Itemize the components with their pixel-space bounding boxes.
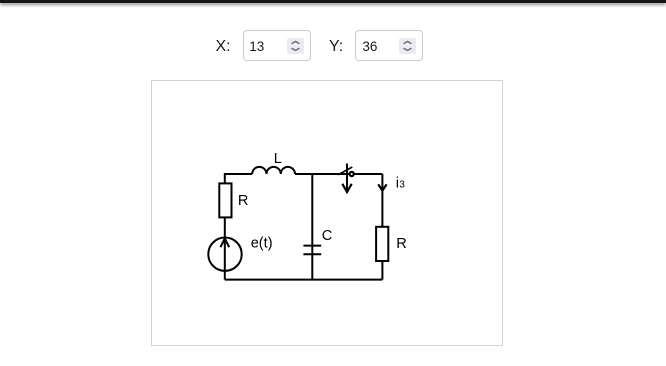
label X: [216, 38, 231, 56]
switch S1 [338, 164, 354, 193]
middle branch wire (through capacitor) [311, 174, 313, 280]
wire inductor to top-right corner [295, 173, 382, 175]
resistor R2 (right) [376, 227, 388, 261]
inductor L1 [252, 167, 295, 174]
wire left branch through source [224, 217, 226, 279]
node T-junction at middle branch [311, 174, 313, 175]
schematic panel [151, 80, 503, 346]
svg-text:C: C [322, 228, 333, 244]
inductor label L [274, 151, 282, 167]
svg-text:R: R [396, 236, 407, 252]
bottom wire [225, 279, 383, 281]
svg-text:L: L [274, 151, 282, 167]
number input X value 13 [243, 30, 312, 61]
svg-text:3: 3 [399, 180, 405, 191]
resistor R1 (left) [219, 183, 231, 217]
resistor R2 label R [396, 236, 407, 252]
voltage source arrow head [220, 238, 229, 247]
voltage source e(t) circle [208, 238, 241, 271]
capacitor label C [322, 228, 333, 244]
label Y: [329, 38, 343, 56]
capacitor C1 plates [303, 246, 321, 255]
wire top-left corner to inductor [225, 174, 252, 183]
current arrow i3 [378, 184, 386, 190]
svg-text:R: R [238, 193, 249, 209]
number input Y value 36 [355, 30, 424, 61]
svg-text:e(t): e(t) [251, 236, 273, 252]
wire right branch bottom [381, 261, 383, 280]
label i3 [396, 176, 406, 192]
resistor R1 label R [238, 193, 249, 209]
top black bar [0, 0, 666, 3]
source label e(t) [251, 236, 273, 252]
wire right branch top [381, 174, 383, 227]
